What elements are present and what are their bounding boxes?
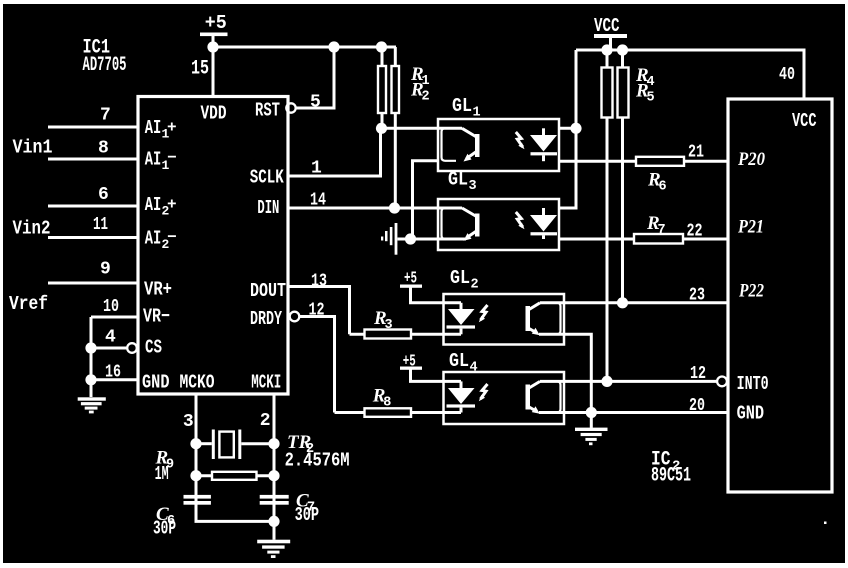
svg-text:9: 9 [100, 260, 111, 280]
junction VCC rail / R4 [601, 44, 612, 55]
svg-text:GL: GL [450, 267, 470, 289]
GL4 phototransistor envelope [546, 381, 561, 412]
svg-text:MCKO: MCKO [180, 371, 215, 393]
svg-text:11: 11 [93, 215, 108, 235]
wire RST pin5 [296, 47, 334, 108]
GL4 transistor emitter diagonal [527, 406, 537, 412]
junction INT0 node / R4 [601, 376, 612, 387]
capacitor C6 bottom plate [184, 501, 211, 505]
wire IC1 pin6 stub [48, 205, 138, 208]
GL1 transistor base bar [475, 134, 480, 157]
svg-text:5: 5 [310, 93, 321, 113]
wire GL2 collector to pin23 [540, 301, 728, 304]
svg-text:2: 2 [471, 278, 479, 293]
wire VCC stem [609, 38, 612, 50]
GL1 transistor emitter arrow [464, 154, 472, 162]
junction GND node [586, 407, 597, 418]
GL4 LED triangle [448, 388, 475, 404]
capacitor C7 top plate [260, 495, 289, 499]
svg-text:40: 40 [779, 65, 795, 85]
GL4 transistor emitter arrow [532, 406, 540, 414]
bubble RST pin5 [286, 103, 295, 112]
svg-text:+: + [167, 119, 177, 137]
GL2 light arrow [481, 305, 488, 320]
svg-text:4: 4 [470, 361, 478, 376]
svg-text:CS: CS [145, 337, 162, 359]
junction +5 rail / pin5 branch [328, 41, 339, 52]
wire +5 rail to pin15 and R1 R2 tops [213, 36, 396, 97]
svg-text:RST: RST [255, 99, 280, 121]
wire MCKI column pin2 [273, 394, 276, 521]
GL3 LED triangle [530, 215, 557, 232]
wire CS pin4 [91, 347, 127, 350]
capacitor C6 top plate [184, 495, 211, 499]
GL4 transistor base bar [526, 385, 531, 410]
wire GL2 emitter down to ground node [539, 334, 591, 412]
junction MCKO / R9 [190, 470, 201, 481]
resistor R4 body [602, 68, 613, 118]
junction MCKO / crystal [190, 438, 201, 449]
svg-text:7: 7 [100, 106, 111, 126]
optocoupler GL4 box [444, 372, 565, 424]
svg-text:30P: 30P [153, 518, 176, 540]
resistor R7 body [634, 234, 683, 244]
junction MCKI / crystal [268, 438, 279, 449]
GL3 LED cathode lead [542, 235, 545, 239]
wire VCC drop to GL1 GL3 LED anodes [559, 50, 576, 208]
junction P22 node / R5 [617, 297, 628, 308]
svg-text:GL: GL [452, 95, 472, 117]
svg-text:+5: +5 [205, 12, 227, 34]
svg-text:6: 6 [98, 185, 109, 205]
svg-text:GL: GL [449, 350, 469, 372]
svg-text:30P: 30P [295, 504, 320, 526]
GL2 transistor base bar [526, 306, 531, 331]
junction +5 rail at pin15 [207, 41, 218, 52]
GL2 LED cathode bar [447, 325, 476, 328]
wire GL4 emitter to pin20 GND [539, 411, 728, 414]
wire GL3 LED cathode to R7 to pin22 [559, 238, 728, 241]
GL2 LED cathode lead [460, 329, 463, 335]
GL2 transistor emitter diagonal [527, 327, 537, 333]
svg-text:DOUT: DOUT [250, 280, 286, 302]
wire IC1 pin9 stub [48, 282, 138, 285]
GL2 light arrow head [479, 316, 485, 322]
junction C7 bottom / join wire [268, 516, 279, 527]
resistor R2 body [392, 66, 400, 113]
wire GL4 collector to INT0 pin12 [540, 380, 717, 383]
IC1 AD7705 box [138, 97, 288, 395]
junction DIN / R2 [389, 202, 400, 213]
svg-text:3: 3 [385, 318, 393, 333]
optocoupler GL1 box [438, 119, 559, 171]
svg-text:2: 2 [260, 411, 271, 431]
junction MCKI / R9 [268, 470, 279, 481]
svg-text:10: 10 [103, 297, 119, 317]
svg-text:4: 4 [105, 327, 116, 347]
ground symbol (crystal side) [257, 540, 290, 544]
resistor R6 body [636, 157, 684, 166]
svg-text:AI: AI [145, 117, 162, 139]
svg-text:1: 1 [311, 159, 322, 179]
svg-text:3: 3 [183, 412, 194, 432]
svg-text:+: + [167, 196, 177, 214]
wire +5 feed to GL2 LED anode [411, 288, 462, 303]
svg-text:AD7705: AD7705 [83, 54, 127, 77]
GL3 light arrow [516, 212, 523, 227]
wire GL1 LED cathode to R6 to pin21 [559, 160, 728, 163]
bubble DRDY pin12 [290, 312, 300, 322]
svg-text:DIN: DIN [257, 197, 279, 219]
svg-text:2: 2 [422, 90, 430, 105]
GL2 phototransistor envelope [546, 303, 561, 335]
noise speck [824, 522, 827, 525]
svg-text:AI: AI [145, 194, 162, 216]
GL4 LED anode lead [460, 381, 463, 388]
svg-text:P22: P22 [738, 280, 764, 301]
wire GL1 emitter to isolated ground and GL3 emitter [398, 161, 467, 239]
svg-text:15: 15 [191, 58, 209, 81]
resistor R3 body [365, 330, 412, 339]
wire GND node to ground symbol [590, 413, 593, 428]
svg-text:13: 13 [311, 272, 327, 292]
GL3 LED cathode bar [531, 232, 558, 235]
GL3 transistor collector diagonal [462, 208, 477, 217]
wire C6 C7 bottom joining [196, 505, 274, 540]
svg-text:12: 12 [690, 364, 706, 384]
resistor R1 body [378, 66, 386, 113]
GL3 LED anode lead [542, 208, 545, 216]
svg-text:Vref: Vref [9, 293, 48, 315]
svg-text:SCLK: SCLK [250, 166, 284, 188]
GL3 transistor emitter arrow [464, 233, 472, 241]
svg-text:23: 23 [689, 286, 705, 306]
GL4 light arrow head [479, 395, 485, 401]
GL1 light arrow head [518, 143, 524, 149]
svg-text:Vin2: Vin2 [13, 218, 51, 240]
wire R5 leads: VCC to body, body to P22 node [621, 50, 624, 303]
svg-text:12: 12 [309, 301, 325, 321]
wire crystal right lead [241, 442, 274, 445]
wire DIN net: pin14 to GL3 collector with R2 pulldown lead [288, 113, 462, 208]
wire IC1 pin10 stub [91, 316, 138, 319]
junction isolated ground node [405, 233, 416, 244]
GL1 LED cathode bar [531, 152, 558, 155]
GL1 LED anode lead [542, 128, 545, 135]
optocoupler GL2 box [444, 294, 565, 345]
wire R9 leads [196, 474, 274, 477]
svg-text:−: − [167, 229, 177, 247]
GL1 transistor emitter diagonal [467, 152, 477, 159]
wire analog ground column [90, 317, 93, 397]
GL2 transistor collector diagonal [527, 303, 541, 311]
svg-text:VCC: VCC [792, 110, 817, 132]
svg-text:DRDY: DRDY [250, 308, 282, 330]
svg-text:GL: GL [448, 169, 468, 191]
IC2 89C51 box [728, 99, 832, 492]
ground symbol (analog side) [78, 397, 106, 400]
svg-text:VR+: VR+ [144, 278, 172, 300]
svg-text:3: 3 [469, 179, 477, 194]
svg-text:2.4576M: 2.4576M [285, 449, 350, 471]
svg-text:1M: 1M [155, 463, 169, 485]
isolated ground (left-pointing) bars [395, 223, 398, 255]
wire +5 feed to GL4 LED anode [411, 370, 462, 382]
svg-text:−: − [167, 149, 177, 167]
wire DOUT pin13 to R3 to GL2 LED cathode [288, 287, 461, 335]
svg-text:7: 7 [658, 223, 666, 238]
svg-text:16: 16 [105, 362, 121, 382]
svg-text:1: 1 [473, 106, 481, 121]
crystal TR2 body [219, 432, 233, 458]
GL1 LED triangle [530, 135, 557, 152]
svg-text:P21: P21 [737, 216, 764, 237]
wire IC1 pin8 stub [48, 158, 138, 161]
ground symbol (optocoupler output side) [575, 428, 608, 431]
svg-text:Vin1: Vin1 [13, 137, 53, 159]
svg-text:5: 5 [647, 91, 655, 106]
GL4 transistor collector diagonal [527, 381, 541, 389]
GL2 LED anode lead [460, 303, 463, 310]
wire MCKO column pin3 [195, 394, 198, 521]
junction SCLK / R1 / GL1 [376, 123, 387, 134]
svg-text:8: 8 [98, 139, 109, 159]
resistor R9 body [212, 472, 257, 480]
wire IC1 pin16 stub [91, 378, 138, 381]
wire SCLK net: R1 bottom to pin1 and to GL1 collector [288, 113, 462, 176]
junction VCC rail / R5 [617, 44, 628, 55]
svg-text:GND: GND [737, 403, 765, 425]
resistor R8 body [365, 408, 412, 417]
svg-text:6: 6 [659, 180, 667, 195]
GL1 transistor collector diagonal [462, 128, 477, 137]
wire crystal left lead [196, 442, 212, 445]
GL3 transistor emitter diagonal [467, 231, 477, 238]
svg-text:P20: P20 [737, 149, 765, 170]
svg-text:VCC: VCC [594, 15, 620, 37]
wire IC1 pin7 stub [48, 126, 138, 129]
svg-text:GND: GND [142, 371, 170, 393]
junction +5 rail / R1 branch [376, 41, 387, 52]
GL1 light arrow [516, 132, 523, 147]
GL1 LED cathode lead [542, 155, 545, 161]
capacitor C7 bottom plate [260, 501, 289, 505]
GL4 light arrow [481, 384, 488, 399]
svg-text:INT0: INT0 [737, 373, 769, 395]
svg-text:AI: AI [145, 149, 162, 171]
bubble CS pin4 [127, 343, 137, 353]
optocoupler GL3 box [438, 199, 559, 250]
GL2 transistor emitter arrow [532, 328, 540, 336]
svg-text:20: 20 [689, 396, 705, 416]
svg-text:14: 14 [310, 191, 326, 211]
svg-text:AI: AI [145, 228, 162, 250]
wire VCC rail to pin 40 [576, 50, 804, 99]
svg-text:VR−: VR− [143, 305, 170, 327]
wire IC1 pin11 stub [48, 236, 138, 239]
bubble INT0 pin12 [717, 377, 727, 387]
wire DRDY pin12 to R8 to GL4 LED cathode [299, 317, 461, 413]
GL4 LED cathode lead [460, 408, 463, 413]
GL3 phototransistor envelope [442, 208, 457, 239]
svg-text:8: 8 [383, 396, 391, 411]
junction pin16 / ground column [85, 374, 96, 385]
svg-text:MCKI: MCKI [251, 371, 281, 393]
GL1 phototransistor envelope [442, 128, 457, 161]
crystal TR2 left plate [212, 430, 215, 460]
GL3 transistor base bar [475, 214, 480, 237]
junction pin4 / ground column [85, 342, 96, 353]
svg-text:89C51: 89C51 [651, 465, 691, 488]
GL2 LED triangle [448, 309, 475, 325]
resistor R5 body [618, 68, 629, 118]
GL4 LED cathode bar [447, 404, 476, 407]
GL3 light arrow head [518, 223, 524, 229]
svg-text:VDD: VDD [201, 102, 227, 124]
crystal TR2 right plate [238, 430, 241, 460]
svg-text:22: 22 [687, 222, 703, 242]
junction GL1 anode / VCC drop [570, 123, 581, 134]
svg-text:21: 21 [688, 143, 704, 163]
wire R4 leads: VCC to body, body to INT0 node [606, 50, 609, 381]
